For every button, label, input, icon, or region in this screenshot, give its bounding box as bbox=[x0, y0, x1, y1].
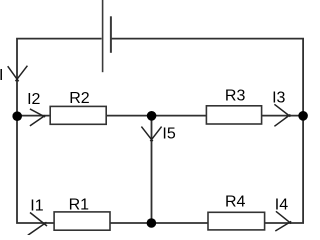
svg-text:I3: I3 bbox=[272, 89, 285, 106]
svg-text:I5: I5 bbox=[162, 126, 175, 143]
battery short plate bbox=[110, 16, 112, 53]
wire middle branch left bbox=[17, 115, 50, 117]
svg-text:R4: R4 bbox=[225, 194, 246, 211]
wire middle branch center bbox=[106, 115, 206, 117]
svg-text:R3: R3 bbox=[225, 88, 246, 105]
node D bottom middle bbox=[147, 218, 157, 228]
resistor R1 bbox=[54, 212, 110, 230]
resistor R3 bbox=[206, 106, 261, 124]
svg-text:I1: I1 bbox=[30, 198, 43, 215]
arrow current I1 (right) bbox=[28, 213, 47, 236]
battery long plate bbox=[102, 0, 104, 72]
resistor R4 bbox=[208, 212, 265, 230]
svg-text:I: I bbox=[0, 67, 3, 84]
wire middle branch right bbox=[262, 115, 304, 117]
svg-text:R2: R2 bbox=[69, 90, 90, 107]
node A left bbox=[12, 111, 22, 121]
svg-text:I2: I2 bbox=[27, 91, 40, 108]
resistor R2 bbox=[50, 106, 106, 124]
node C right bbox=[298, 111, 308, 121]
arrow current I5 (down, on middle wire) bbox=[141, 127, 161, 142]
svg-text:R1: R1 bbox=[69, 196, 90, 213]
wire bottom middle bbox=[110, 222, 208, 224]
wire top-left + left side + bottom-left bbox=[17, 39, 102, 223]
arrow current I3 (right) bbox=[274, 104, 290, 126]
wire middle vertical bbox=[151, 116, 153, 223]
svg-text:I4: I4 bbox=[275, 197, 288, 214]
wire top-right + right side + bottom-right bbox=[111, 39, 303, 223]
arrow current I4 (right) bbox=[275, 211, 291, 231]
arrow current I2 (right) bbox=[30, 109, 45, 126]
arrow current I (down, on left wire) bbox=[8, 66, 28, 82]
node B top middle bbox=[147, 111, 157, 121]
